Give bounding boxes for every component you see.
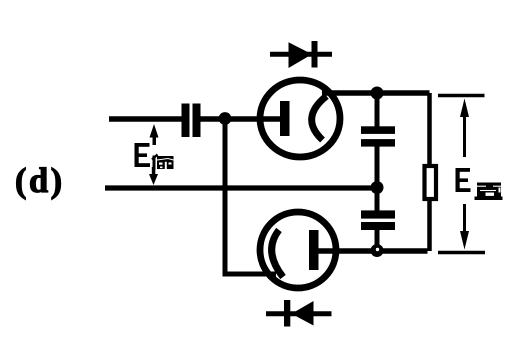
wire lower rail [105,185,377,190]
label E bias [135,143,151,167]
tube V2 cathode crescent [272,230,283,277]
dimension bottom tick [438,251,485,255]
capacitor C2 top plate [361,126,395,134]
label E direct [456,168,471,192]
label bias subscript glyph [152,155,174,170]
wire right branch top [427,93,432,167]
node junction dot C [371,181,384,194]
capacitor C1 left plate [182,104,190,138]
resistor R1 [425,166,437,199]
dimension arrow up (E direct) [460,99,469,158]
wire plate of V1 to node B [322,90,430,96]
wire node C down to capacitor C3 [375,188,380,211]
wire vertical from node A down [223,119,228,274]
diode D2 triangle [292,301,314,326]
dimension arrow down (E bias) [149,167,158,185]
tube V1 plate bar [280,101,290,136]
capacitor C2 bottom plate [361,139,395,147]
capacitor C1 right plate [193,104,201,138]
diode D1 cathode bar [312,41,318,68]
dimension top tick [438,94,485,98]
node junction dot A [219,112,232,125]
wire horizontal to lower tube [223,272,277,277]
diode D2 bottom lead line [266,311,332,316]
diode D2 cathode bar [284,300,290,327]
label direct subscript glyph [475,183,503,201]
capacitor C3 bottom plate [361,222,395,230]
wire right branch bottom [427,199,432,251]
dimension arrow up (E bias) [150,124,159,145]
wire top rail right segment [200,116,285,122]
wire top rail left segment [109,116,182,122]
capacitor C3 top plate [361,210,395,218]
wire bottom rail [318,248,428,254]
node junction dot D [371,244,384,257]
tube V1 cathode crescent [312,96,327,140]
tube V2 plate bar [309,230,319,270]
wire C2 to node C [375,147,380,189]
svg-text:(d): (d) [15,162,65,200]
tube V1 envelope [260,80,340,157]
wire node B down to capacitor C2 [375,93,380,128]
diode D1 triangle [289,42,313,68]
tube V2 envelope [260,212,336,288]
wire C3 to node D [375,230,380,251]
node junction dot B [371,87,384,100]
diode D1 top lead line [270,52,332,57]
dimension arrow down (E direct) [460,204,469,250]
